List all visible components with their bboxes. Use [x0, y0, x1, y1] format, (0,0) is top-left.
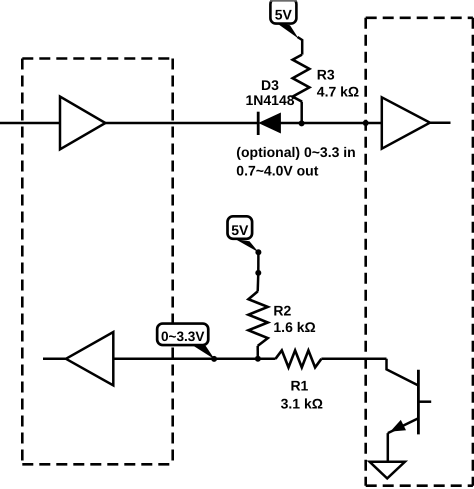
wire diode to right buffer: [280, 122, 381, 125]
svg-text:R2: R2: [273, 302, 291, 318]
ground: [370, 462, 405, 479]
buffer U2 (right receiver): [382, 97, 430, 148]
svg-text:0.7~4.0V out: 0.7~4.0V out: [236, 163, 318, 179]
svg-text:4.7 kΩ: 4.7 kΩ: [317, 84, 359, 100]
wire 5V to node: [257, 252, 260, 273]
svg-text:R3: R3: [317, 67, 335, 83]
node R3/wire junction: [299, 120, 305, 126]
5V supply label (bottom): [228, 216, 253, 239]
transistor Q1 body bar: [417, 370, 420, 435]
buffer U1 (left TX driver): [60, 97, 105, 150]
dashed box right (device side): [366, 18, 473, 486]
svg-text:1N4148: 1N4148: [245, 92, 294, 108]
5V supply label (top): [270, 0, 296, 24]
svg-text:R1: R1: [290, 377, 308, 393]
svg-text:(optional) 0~3.3 in: (optional) 0~3.3 in: [236, 144, 355, 160]
0~3.3V label tail: [192, 345, 215, 360]
5V label tail (top): [276, 22, 299, 38]
svg-text:5V: 5V: [275, 7, 293, 23]
svg-text:1.6 kΩ: 1.6 kΩ: [273, 319, 315, 335]
svg-text:D3: D3: [261, 77, 279, 93]
emitter arrowhead: [390, 420, 406, 432]
0~3.3V label box: [157, 324, 208, 346]
wire top-left input: [0, 122, 60, 125]
wire U2 output: [430, 121, 451, 124]
wire U3 input from divider: [113, 358, 275, 361]
node above R2: [255, 270, 261, 276]
dashed box left (MCU side): [22, 59, 172, 465]
wire R2 to junction: [256, 346, 259, 359]
wire R1 to transistor: [321, 358, 386, 361]
node 0~3.3V tap: [211, 356, 217, 362]
transistor Q1 emitter: [388, 418, 419, 433]
node R2/R1 junction: [255, 356, 261, 362]
buffer U3 (left receiver, points left): [66, 332, 113, 385]
resistor R1: [276, 350, 322, 367]
wire bottom-left output: [43, 358, 66, 361]
wire U1 output to diode: [105, 122, 257, 125]
transistor Q1 base lead: [418, 400, 431, 403]
node at right box edge: [363, 120, 369, 126]
wire R3 to node: [300, 102, 303, 122]
5V label tail (bottom): [236, 239, 259, 252]
svg-text:3.1 kΩ: 3.1 kΩ: [281, 395, 323, 411]
wire into transistor collector: [387, 359, 419, 386]
svg-text:0~3.3V: 0~3.3V: [161, 329, 204, 344]
svg-text:5V: 5V: [231, 222, 249, 238]
resistor R2: [248, 291, 267, 346]
wire node to R2: [256, 273, 259, 292]
diode D3 body: [260, 113, 281, 132]
diode D3 cathode bar: [257, 112, 260, 135]
node below 5V tail: [255, 249, 261, 255]
wire 5V to R3: [298, 37, 303, 55]
wire emitter to ground: [387, 433, 390, 462]
resistor R3: [293, 55, 310, 102]
